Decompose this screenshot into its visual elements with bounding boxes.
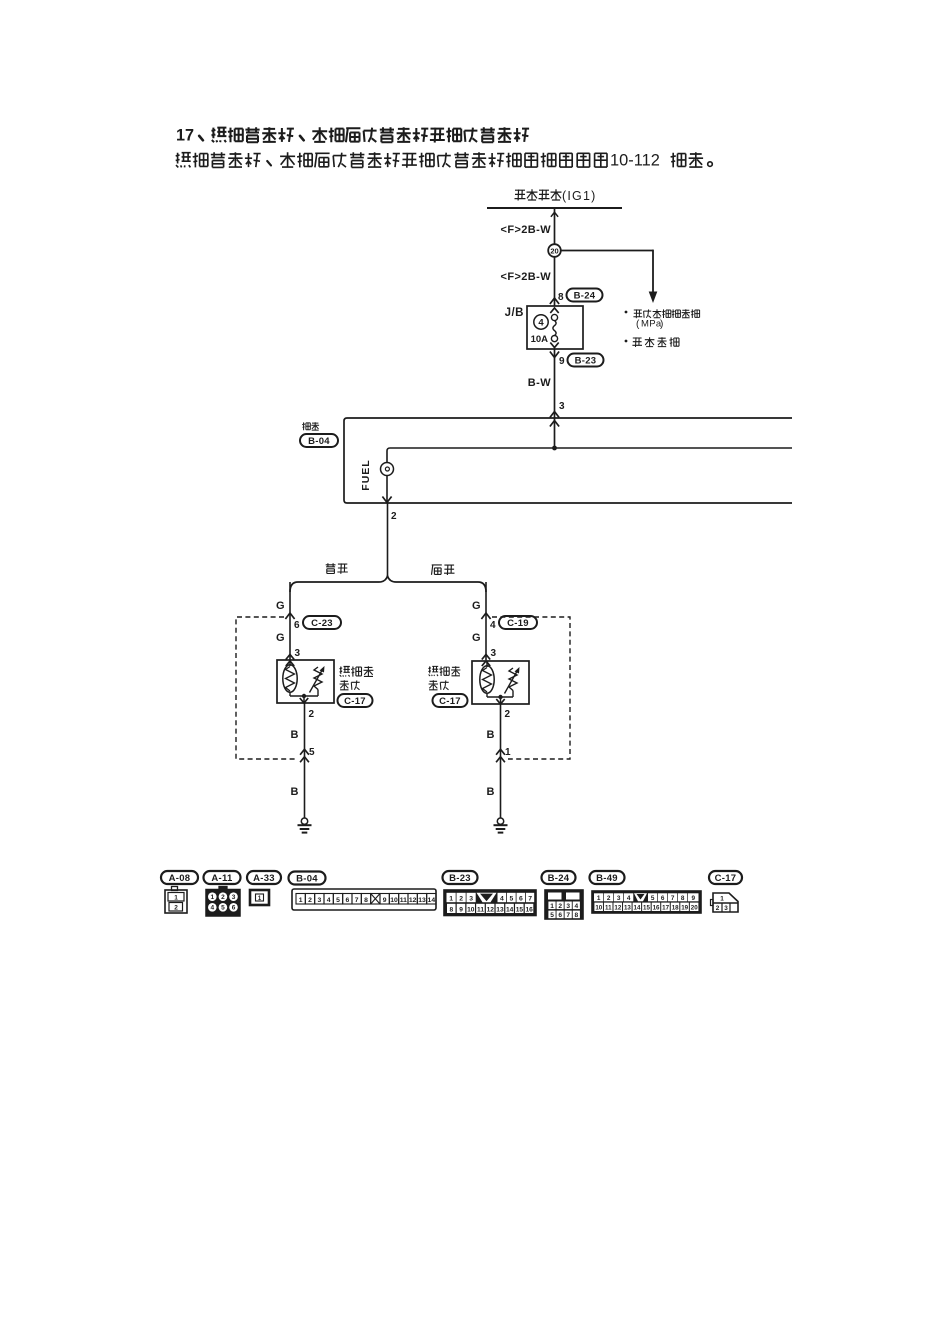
wire from cluster to branch split xyxy=(387,503,389,576)
node junction dot main wire on internal bus xyxy=(552,446,557,451)
svg-text:3: 3 xyxy=(617,895,621,902)
label branch list 发动机控制系统 (MPa) / 点火系统 xyxy=(625,309,700,347)
svg-text:1: 1 xyxy=(449,896,453,903)
node ignition switch label 点火开关(IG1) xyxy=(515,189,597,203)
connector C-17 label xyxy=(709,871,742,884)
connector A-11 pinout xyxy=(206,887,240,917)
svg-text:3: 3 xyxy=(295,648,301,659)
svg-text:8: 8 xyxy=(450,906,454,913)
svg-text:G: G xyxy=(276,632,285,644)
svg-text:5: 5 xyxy=(309,747,315,758)
svg-text:B: B xyxy=(487,786,495,798)
wire branch from node 20 to engine control system xyxy=(561,250,658,303)
svg-text:2: 2 xyxy=(174,905,178,912)
svg-text:6: 6 xyxy=(661,895,665,902)
svg-text:6: 6 xyxy=(294,620,300,631)
connector A-33 label xyxy=(247,871,281,884)
connector C-17 pinout xyxy=(711,893,739,912)
svg-text:<F>2B-W: <F>2B-W xyxy=(501,271,552,283)
connector C-17 capsule right unit xyxy=(433,694,468,707)
resistor coil element (sender) xyxy=(480,666,494,694)
connector B-23 pinout xyxy=(444,890,536,916)
svg-text:C-17: C-17 xyxy=(715,873,737,884)
svg-text:5: 5 xyxy=(550,912,554,919)
svg-text:2: 2 xyxy=(505,709,511,720)
svg-text:2: 2 xyxy=(391,511,397,522)
pin 2 label unit output xyxy=(309,709,315,720)
svg-text:<F>2B-W: <F>2B-W xyxy=(501,224,552,236)
svg-text:8: 8 xyxy=(364,897,368,904)
connector A-11 label xyxy=(204,871,241,884)
svg-text:11: 11 xyxy=(400,897,407,904)
wire G branch at x=486 xyxy=(481,582,490,666)
svg-text:10A: 10A xyxy=(531,334,549,345)
svg-text:(: ( xyxy=(636,319,640,330)
svg-text:20: 20 xyxy=(550,246,558,255)
label FUEL rotated xyxy=(360,459,372,490)
wire B from unit pin 2 to ground xyxy=(496,704,505,819)
svg-text:C-17: C-17 xyxy=(439,696,461,707)
pin 3 label sender xyxy=(491,648,497,659)
pin 4 label xyxy=(490,620,496,631)
svg-text:5: 5 xyxy=(221,905,225,912)
fuse element with 10A rating xyxy=(531,308,559,348)
svg-text:4: 4 xyxy=(500,896,504,903)
svg-text:1: 1 xyxy=(210,894,214,901)
wire (F)2B-W from IG1 to node 20 xyxy=(551,208,558,244)
svg-text:18: 18 xyxy=(672,905,679,912)
wire sender entry into coil xyxy=(289,660,291,666)
svg-text:C-19: C-19 xyxy=(507,618,529,629)
gauge FUEL meter circle xyxy=(381,463,394,476)
pin 9 label xyxy=(559,356,565,367)
svg-text:B-04: B-04 xyxy=(296,873,318,884)
wire internal sender bottom joins xyxy=(290,690,318,699)
svg-text:3: 3 xyxy=(491,648,497,659)
wire ignition switch bus (IG1) xyxy=(487,207,622,209)
pin 8 label xyxy=(558,292,564,303)
wire internal bus to fuel gauge xyxy=(387,448,792,463)
svg-text:4: 4 xyxy=(327,897,331,904)
connector B-49 pinout xyxy=(592,891,701,913)
svg-text:5: 5 xyxy=(651,895,655,902)
svg-text:B-W: B-W xyxy=(528,377,551,389)
svg-text:16: 16 xyxy=(653,905,660,912)
svg-text:19: 19 xyxy=(681,905,688,912)
label wire B-W xyxy=(528,377,551,389)
svg-text:4: 4 xyxy=(490,620,496,631)
connector B-24 pinout xyxy=(545,890,583,919)
connector C-23 reference capsule xyxy=(303,616,341,629)
pin 2 label unit output xyxy=(505,709,511,720)
svg-text:MPa: MPa xyxy=(641,319,662,330)
label wire B upper xyxy=(291,729,299,741)
wire unit output pin 2 xyxy=(300,696,308,703)
wire B from unit pin 2 to ground xyxy=(300,704,309,819)
svg-text:B: B xyxy=(291,786,299,798)
svg-text:4: 4 xyxy=(575,903,579,910)
connector B-49 label xyxy=(590,871,625,884)
pin 2 label gauge output xyxy=(391,511,397,522)
svg-text:J/B: J/B xyxy=(505,307,524,319)
connector B-24 reference capsule xyxy=(567,289,603,302)
fuse 4 circle designator xyxy=(534,315,548,329)
svg-text:9: 9 xyxy=(691,895,695,902)
svg-text:G: G xyxy=(276,600,285,612)
label 厢车 van branch xyxy=(432,565,455,576)
label 燃油表单元 left of right unit xyxy=(428,666,460,690)
wire gauge output through cluster bottom xyxy=(382,476,391,504)
svg-text:B: B xyxy=(487,729,495,741)
svg-text:5: 5 xyxy=(509,896,513,903)
svg-text:B-23: B-23 xyxy=(449,873,471,884)
connector A-33 pinout xyxy=(250,890,269,905)
pin 5 label body connector xyxy=(309,747,315,758)
svg-text:20: 20 xyxy=(691,905,698,912)
svg-text:13: 13 xyxy=(418,897,426,904)
pin 3 label sender xyxy=(295,648,301,659)
svg-text:B-23: B-23 xyxy=(575,355,597,366)
svg-text:4: 4 xyxy=(210,905,214,912)
svg-text:14: 14 xyxy=(428,897,436,904)
svg-text:15: 15 xyxy=(516,906,524,913)
wire unit output pin 2 xyxy=(496,697,504,704)
svg-text:2: 2 xyxy=(308,897,312,904)
svg-text:6: 6 xyxy=(519,896,523,903)
svg-text:): ) xyxy=(660,319,663,330)
ground symbol xyxy=(298,818,312,833)
svg-text:3: 3 xyxy=(469,896,473,903)
fuel sender unit 燃油表单元 box xyxy=(472,661,529,704)
svg-text:B-49: B-49 xyxy=(596,873,618,884)
variable resistor element with arrow xyxy=(310,666,325,693)
instrument cluster 仪表 box outline xyxy=(344,418,792,503)
svg-text:14: 14 xyxy=(634,905,641,912)
svg-text:9: 9 xyxy=(459,906,463,913)
svg-text:10: 10 xyxy=(467,906,475,913)
svg-text:A-11: A-11 xyxy=(211,873,233,884)
svg-text:3: 3 xyxy=(724,905,728,912)
wire G branch at x=290 xyxy=(285,582,294,666)
svg-text:9: 9 xyxy=(383,897,387,904)
connector C-17 capsule left unit xyxy=(338,694,373,707)
svg-text:4: 4 xyxy=(538,318,544,329)
ground symbol xyxy=(494,818,508,833)
svg-text:2: 2 xyxy=(459,896,463,903)
svg-text:1: 1 xyxy=(505,747,511,758)
wire split bracket to truck / van branches xyxy=(290,576,486,592)
svg-text:12: 12 xyxy=(614,905,621,912)
svg-text:2: 2 xyxy=(558,903,562,910)
wire (F)2B-W from node 20 to J/B xyxy=(550,257,559,306)
connector C-19 reference capsule xyxy=(499,616,537,629)
svg-text:5: 5 xyxy=(336,897,340,904)
title heading line 1 xyxy=(176,126,529,144)
svg-text:8: 8 xyxy=(681,895,685,902)
variable resistor element with arrow xyxy=(505,667,520,694)
label 仪表 instrument cluster xyxy=(302,422,319,430)
dashed harness boundary left xyxy=(236,617,297,759)
svg-text:10-112: 10-112 xyxy=(610,151,660,169)
svg-text:7: 7 xyxy=(671,895,675,902)
svg-text:2: 2 xyxy=(221,894,225,901)
label wire (F)2B-W lower xyxy=(501,271,552,283)
svg-text:B-24: B-24 xyxy=(574,290,596,301)
label wire B lower xyxy=(487,786,495,798)
connector A-08 pinout xyxy=(165,887,187,914)
svg-text:7: 7 xyxy=(528,896,532,903)
svg-text:10: 10 xyxy=(595,905,602,912)
junction block J/B box xyxy=(505,306,583,349)
svg-text:4: 4 xyxy=(627,895,631,902)
svg-text:1: 1 xyxy=(550,903,554,910)
svg-text:12: 12 xyxy=(487,906,495,913)
svg-text:7: 7 xyxy=(355,897,359,904)
svg-text:2: 2 xyxy=(607,895,611,902)
svg-text:11: 11 xyxy=(605,905,612,912)
svg-text:3: 3 xyxy=(317,897,321,904)
label wire G upper xyxy=(472,600,481,612)
connector B-04 pinout xyxy=(292,889,436,910)
svg-text:12: 12 xyxy=(409,897,417,904)
svg-text:17: 17 xyxy=(662,905,669,912)
svg-text:C-17: C-17 xyxy=(344,696,366,707)
pin 6 label xyxy=(294,620,300,631)
svg-text:C-23: C-23 xyxy=(311,618,333,629)
label wire G lower xyxy=(472,632,481,644)
svg-text:8: 8 xyxy=(558,292,564,303)
label 货车 truck branch xyxy=(326,563,348,574)
svg-text:6: 6 xyxy=(232,905,236,912)
svg-text:B-24: B-24 xyxy=(548,873,570,884)
label wire B upper xyxy=(487,729,495,741)
svg-text:2: 2 xyxy=(716,905,720,912)
connector B-23 reference capsule xyxy=(568,354,604,367)
svg-text:G: G xyxy=(472,632,481,644)
svg-text:10: 10 xyxy=(390,897,398,904)
svg-text:14: 14 xyxy=(506,906,514,913)
svg-text:6: 6 xyxy=(558,912,562,919)
connector B-23 label xyxy=(443,871,478,884)
label wire B lower xyxy=(291,786,299,798)
svg-text:3: 3 xyxy=(232,894,236,901)
svg-text:15: 15 xyxy=(643,905,650,912)
svg-text:16: 16 xyxy=(525,906,533,913)
label wire G upper xyxy=(276,600,285,612)
connector A-08 label xyxy=(161,871,198,884)
label 燃油表单元 right of left unit xyxy=(340,666,374,690)
wire internal sender bottom joins xyxy=(487,691,513,700)
svg-text:6: 6 xyxy=(345,897,349,904)
svg-text:8: 8 xyxy=(575,912,579,919)
svg-text:A-33: A-33 xyxy=(253,873,275,884)
title paragraph line 2 xyxy=(176,151,713,169)
svg-text:1: 1 xyxy=(597,895,601,902)
svg-text:17: 17 xyxy=(176,126,194,144)
svg-text:FUEL: FUEL xyxy=(360,459,372,490)
label wire (F)2B-W upper xyxy=(501,224,552,236)
connector B-24 label xyxy=(542,871,576,884)
dashed harness boundary right xyxy=(492,617,570,759)
fuel sender unit 燃油表单元 box xyxy=(277,660,334,703)
svg-text:G: G xyxy=(472,600,481,612)
svg-text:11: 11 xyxy=(477,906,484,913)
wire sender entry into coil xyxy=(486,661,488,667)
svg-text:1: 1 xyxy=(720,896,724,903)
svg-text:7: 7 xyxy=(566,912,570,919)
svg-text:A-08: A-08 xyxy=(169,873,191,884)
label wire G lower xyxy=(276,632,285,644)
svg-text:B-04: B-04 xyxy=(308,436,330,447)
svg-text:1: 1 xyxy=(299,897,303,904)
node 20 junction xyxy=(548,244,561,257)
connector B-04 label xyxy=(289,872,326,885)
wire B-W from J/B to instrument cluster xyxy=(550,349,559,448)
pin 3 label instrument cluster xyxy=(559,401,565,412)
svg-text:2: 2 xyxy=(309,709,315,720)
svg-text:13: 13 xyxy=(624,905,631,912)
svg-text:13: 13 xyxy=(496,906,504,913)
svg-text:(IG1): (IG1) xyxy=(562,189,596,203)
svg-text:1: 1 xyxy=(174,895,178,902)
resistor coil element (sender) xyxy=(283,665,297,693)
pin 1 label body connector xyxy=(505,747,511,758)
svg-text:9: 9 xyxy=(559,356,565,367)
svg-text:B: B xyxy=(291,729,299,741)
connector B-04 reference capsule xyxy=(300,434,338,447)
svg-text:3: 3 xyxy=(559,401,565,412)
svg-text:3: 3 xyxy=(566,903,570,910)
